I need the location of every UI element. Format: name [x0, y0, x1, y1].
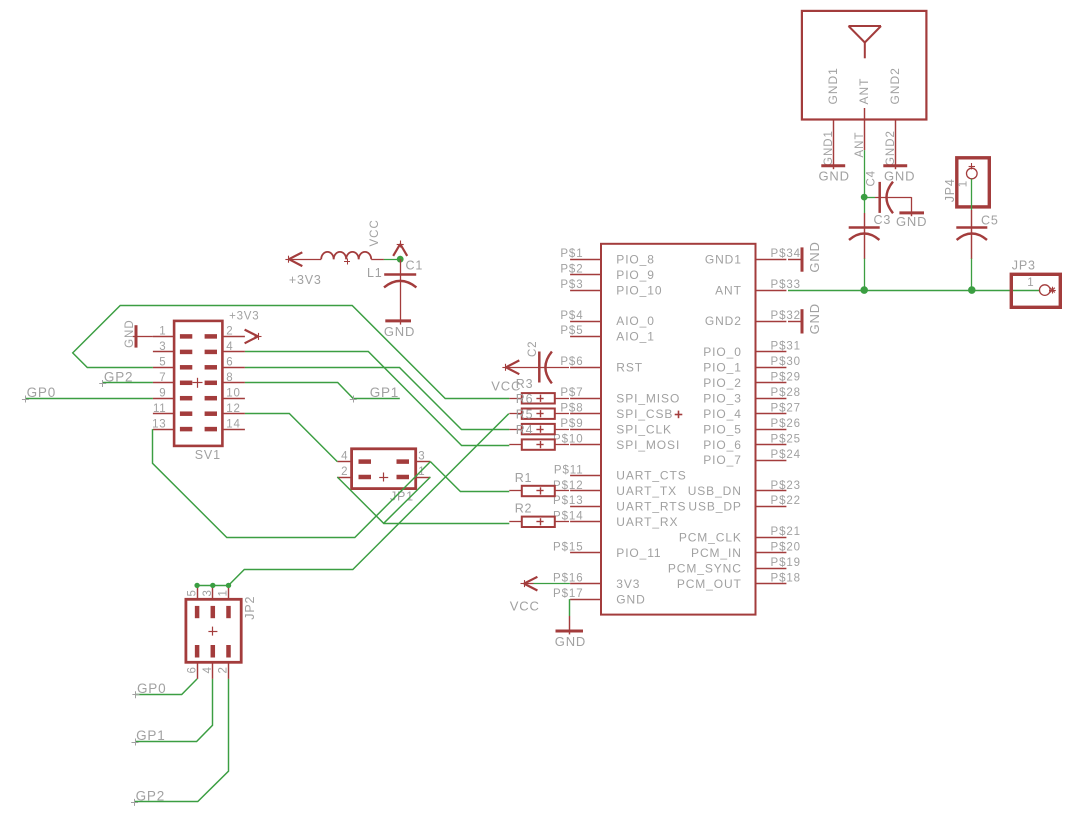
IC module box: [601, 244, 756, 615]
svg-text:7: 7: [159, 372, 166, 384]
wire SV1 pin8 GP1 stub: [245, 383, 400, 399]
svg-text:R4: R4: [516, 423, 534, 437]
connector JP3: [1011, 274, 1060, 307]
svg-text:JP3: JP3: [1012, 258, 1036, 272]
SV1 pin 11: [153, 403, 192, 415]
svg-text:VCC: VCC: [510, 598, 540, 613]
svg-text:RST: RST: [616, 361, 643, 375]
IC pin name PIO_6: [703, 438, 742, 452]
svg-text:+3V3: +3V3: [289, 273, 322, 287]
svg-text:GND: GND: [819, 169, 850, 184]
svg-text:GND2: GND2: [888, 67, 902, 104]
IC pin P$14: [553, 511, 601, 523]
svg-text:13: 13: [152, 418, 166, 430]
IC pin name SPI_CSB: [616, 407, 673, 421]
SV1 pin 10: [205, 387, 245, 399]
svg-text:GP0: GP0: [27, 385, 56, 400]
svg-text:10: 10: [226, 387, 240, 399]
svg-text:GND: GND: [807, 303, 822, 334]
wire SV1 pin7 GP2: [103, 382, 153, 384]
SV1 pin 8: [205, 372, 245, 384]
IC pin P$20: [756, 542, 801, 554]
svg-text:GND: GND: [896, 214, 927, 229]
svg-text:P$18: P$18: [771, 572, 801, 584]
IC pin name USB_DP: [688, 500, 741, 514]
svg-text:P$25: P$25: [771, 433, 801, 445]
wire JP1 pin1 to R2 corner (UART_RX): [384, 477, 431, 523]
antenna pin name ANT: [857, 78, 871, 105]
wire JP2 pin1 to R5 (SPI_CSB): [229, 414, 509, 586]
net label GND2: [885, 130, 897, 166]
IC pin name PIO_5: [703, 422, 742, 436]
net label ANT: [854, 132, 866, 158]
JP2 pin 2: [218, 645, 230, 679]
label JP1: [390, 489, 414, 503]
junction JP2 pin1: [226, 583, 231, 588]
svg-text:PCM_SYNC: PCM_SYNC: [668, 561, 742, 575]
svg-text:14: 14: [226, 418, 240, 430]
wire L1 to junction: [384, 259, 400, 261]
svg-text:UART_RX: UART_RX: [616, 515, 678, 529]
svg-text:PCM_IN: PCM_IN: [691, 546, 742, 560]
wire JP2 pin2 GP2: [135, 679, 229, 802]
svg-text:3: 3: [159, 341, 166, 353]
svg-text:PIO_9: PIO_9: [616, 268, 655, 282]
connector SV1: [174, 321, 222, 446]
connector JP1: [352, 449, 416, 489]
svg-text:PIO_5: PIO_5: [703, 422, 742, 436]
svg-text:GND1: GND1: [823, 130, 835, 166]
wire C5 to P$33 net: [971, 259, 973, 291]
supply VCC at C2: [491, 360, 521, 393]
svg-text:1: 1: [958, 180, 970, 187]
label JP2: [243, 596, 257, 620]
IC pin P$17: [553, 588, 601, 600]
junction JP2 pin3: [210, 583, 215, 588]
IC pin P$30: [756, 356, 801, 368]
svg-text:P$34: P$34: [771, 248, 801, 260]
svg-text:P$13: P$13: [553, 495, 583, 507]
wire JP2 top tie: [197, 585, 228, 587]
JP3 pin number 1: [1027, 277, 1034, 289]
svg-text:PIO_2: PIO_2: [703, 376, 742, 390]
SV1 pin 5: [153, 357, 192, 369]
wire SV1 pin13 to JP1 pin3: [153, 429, 431, 537]
IC pin P$29: [756, 372, 801, 384]
IC pin P$23: [756, 480, 801, 492]
IC pin name SPI_MISO: [616, 391, 680, 405]
svg-text:USB_DN: USB_DN: [688, 484, 742, 498]
svg-text:C2: C2: [527, 341, 539, 357]
SV1 pin 9: [153, 387, 192, 399]
IC pin P$22: [756, 495, 801, 507]
svg-text:P$6: P$6: [560, 356, 583, 368]
svg-text:JP4: JP4: [943, 178, 957, 202]
svg-text:VCC: VCC: [369, 219, 381, 246]
svg-text:R6: R6: [516, 392, 534, 406]
IC pin name AIO_0: [616, 314, 655, 328]
wire junction to C3: [864, 197, 866, 213]
svg-text:PIO_7: PIO_7: [703, 453, 742, 467]
svg-text:P$21: P$21: [771, 526, 801, 538]
svg-text:GND: GND: [555, 634, 586, 649]
svg-text:GP2: GP2: [136, 788, 165, 803]
IC pin P$2: [560, 263, 601, 275]
svg-text:P$11: P$11: [554, 464, 584, 476]
net label VCC at L1: [369, 219, 381, 246]
JP2 pin 4: [202, 645, 214, 679]
IC pin P$28: [756, 387, 801, 399]
net label GP0 at JP2: [132, 681, 166, 699]
antenna pin ANT: [864, 120, 866, 151]
junction ANT bus C5: [968, 286, 976, 294]
IC pin P$32: [756, 310, 801, 322]
wire P$17 down: [569, 599, 571, 631]
svg-text:GND: GND: [884, 169, 915, 184]
label JP3: [1012, 258, 1036, 272]
svg-text:P$17: P$17: [553, 588, 583, 600]
supply VCC at P$16: [510, 577, 540, 614]
net label GND1: [823, 130, 835, 166]
SV1 pin 6: [205, 357, 245, 369]
antenna pin GND1: [833, 120, 835, 166]
IC pin P$27: [756, 403, 801, 415]
svg-text:12: 12: [226, 403, 240, 415]
SV1 pin 2: [205, 326, 245, 338]
ground at P$34: [788, 241, 822, 272]
IC pin name UART_TX: [616, 484, 677, 498]
svg-text:9: 9: [159, 387, 166, 399]
junction VCC C1: [397, 256, 404, 263]
SV1 pin 12: [205, 403, 245, 415]
svg-text:AIO_0: AIO_0: [616, 314, 655, 328]
capacitor C4: [864, 170, 911, 213]
svg-text:P$28: P$28: [771, 387, 801, 399]
svg-text:5: 5: [186, 589, 198, 596]
svg-text:4: 4: [202, 666, 214, 673]
svg-text:PIO_10: PIO_10: [616, 283, 662, 297]
resistor at P$10: [509, 439, 569, 449]
antenna symbol: [849, 26, 882, 58]
svg-text:3: 3: [418, 450, 425, 462]
svg-text:PIO_6: PIO_6: [703, 438, 742, 452]
IC pin name GND1: [705, 252, 742, 266]
wire SV1 pin5 loop to R6 (SPI_MISO): [73, 306, 510, 399]
svg-text:P$31: P$31: [771, 341, 801, 353]
wire VCC to P$16: [525, 583, 570, 585]
IC pin name PIO_4: [703, 407, 742, 421]
wire JP1 pin3 to R1 (UART_TX): [430, 462, 509, 492]
IC pin name USB_DN: [688, 484, 742, 498]
svg-text:+3V3: +3V3: [229, 311, 259, 323]
connector JP4: [957, 158, 990, 207]
svg-text:P$23: P$23: [771, 480, 801, 492]
svg-text:P$27: P$27: [771, 403, 801, 415]
IC pin name PCM_SYNC: [668, 561, 742, 575]
svg-text:3: 3: [202, 589, 214, 596]
IC pin name UART_CTS: [616, 469, 686, 483]
JP2 pin 5: [186, 585, 198, 618]
IC pin P$13: [553, 495, 601, 507]
svg-text:SPI_CSB: SPI_CSB: [616, 407, 673, 421]
ground at SV1 pin1: [124, 319, 153, 348]
ground of C4: [896, 213, 927, 229]
net label GP1 at SV1: [350, 385, 399, 403]
svg-text:P$16: P$16: [553, 572, 583, 584]
svg-text:GND: GND: [384, 324, 415, 339]
SV1 pin 3: [153, 341, 192, 353]
IC pin name PCM_CLK: [679, 531, 742, 545]
IC pin name UART_RX: [616, 515, 678, 529]
IC pin P$15: [553, 542, 601, 554]
IC pin name PIO_9: [616, 268, 655, 282]
svg-text:2: 2: [341, 466, 348, 478]
junction at C4 tap: [861, 194, 868, 201]
resistor R5: [509, 407, 569, 421]
IC pin P$25: [756, 433, 801, 445]
svg-text:P$2: P$2: [560, 263, 583, 275]
IC pin P$21: [756, 526, 801, 538]
svg-text:P$7: P$7: [560, 387, 583, 399]
IC pin P$9: [560, 418, 601, 430]
IC pin name PIO_7: [703, 453, 742, 467]
svg-text:1: 1: [159, 326, 166, 338]
svg-text:PCM_OUT: PCM_OUT: [677, 577, 742, 591]
svg-text:SPI_MOSI: SPI_MOSI: [616, 438, 680, 452]
svg-text:PIO_3: PIO_3: [703, 391, 742, 405]
wire JP1 pin2 to R2: [337, 477, 509, 524]
IC pin P$4: [560, 310, 601, 322]
wire ANT antenna to junction: [864, 150, 866, 197]
IC pin name GND2: [705, 314, 742, 328]
svg-text:ANT: ANT: [857, 78, 871, 105]
svg-text:P$1: P$1: [560, 248, 583, 260]
IC pin P$33: [756, 279, 801, 291]
svg-text:P$8: P$8: [560, 403, 583, 415]
IC pin P$31: [756, 341, 801, 353]
JP1 pin 4: [337, 450, 371, 462]
svg-text:C5: C5: [981, 214, 999, 228]
svg-text:4: 4: [226, 341, 233, 353]
svg-text:GP1: GP1: [136, 728, 165, 743]
IC pin P$5: [560, 325, 601, 337]
svg-text:SPI_MISO: SPI_MISO: [616, 391, 680, 405]
IC pin name SPI_CLK: [616, 422, 672, 436]
svg-text:AIO_1: AIO_1: [616, 330, 655, 344]
resistor R1: [509, 471, 569, 496]
svg-text:GND2: GND2: [885, 130, 897, 166]
net label GP2 at JP2: [131, 788, 165, 806]
IC pin name ANT: [715, 283, 742, 297]
IC pin P$10: [553, 433, 601, 445]
svg-text:P$26: P$26: [771, 418, 801, 430]
svg-text:P$3: P$3: [560, 279, 583, 291]
wire JP2 pin4 GP1: [135, 679, 213, 742]
IC pin name PIO_2: [703, 376, 742, 390]
IC origin cross: [675, 411, 683, 419]
IC pin name UART_RTS: [616, 500, 686, 514]
JP4 pin number 1: [958, 180, 970, 187]
svg-text:P$20: P$20: [771, 542, 801, 554]
svg-text:2: 2: [226, 326, 233, 338]
svg-text:2: 2: [218, 666, 230, 673]
wire JP4 to C5: [971, 179, 973, 210]
antenna pin ANT stub inside: [864, 108, 866, 120]
supply +3V3 at L1: [285, 252, 321, 287]
antenna pin name GND1: [826, 67, 840, 104]
svg-text:UART_TX: UART_TX: [616, 484, 677, 498]
svg-text:P$9: P$9: [560, 418, 583, 430]
svg-text:C1: C1: [406, 259, 424, 273]
resistor R6: [509, 392, 569, 406]
svg-text:ANT: ANT: [715, 283, 742, 297]
svg-text:P$19: P$19: [771, 557, 801, 569]
label JP4: [943, 178, 957, 202]
ground at P$32: [788, 303, 822, 334]
svg-text:GND2: GND2: [705, 314, 742, 328]
ground at P$17: [555, 631, 586, 649]
svg-text:GND: GND: [807, 241, 822, 272]
IC pin name PCM_IN: [691, 546, 742, 560]
svg-text:R5: R5: [516, 407, 534, 421]
IC pin name RST: [616, 361, 643, 375]
JP1 pin 1: [397, 466, 431, 478]
label R3: [516, 377, 534, 391]
svg-text:6: 6: [226, 357, 233, 369]
wire SV1 pin4 to resistor at P$10 (SPI_MOSI): [245, 352, 509, 446]
JP1 pin 2: [337, 466, 371, 478]
SV1 pin 13: [152, 418, 192, 430]
svg-text:UART_RTS: UART_RTS: [616, 500, 686, 514]
svg-text:L1: L1: [367, 266, 383, 280]
svg-text:PIO_1: PIO_1: [703, 361, 742, 375]
IC pin P$19: [756, 557, 801, 569]
IC pin P$18: [756, 572, 801, 584]
svg-text:P$10: P$10: [553, 433, 583, 445]
connector JP2: [186, 599, 241, 662]
junction ANT bus C3: [860, 286, 868, 294]
IC pin P$24: [756, 449, 801, 461]
IC pin name PIO_1: [703, 361, 742, 375]
IC pin P$11: [554, 464, 601, 476]
IC pin name 3V3: [616, 577, 640, 591]
SV1 pin 7: [153, 372, 192, 384]
junction JP2 pin5: [194, 583, 199, 588]
wire SV1 pin12 to JP1 pin4: [245, 414, 337, 462]
JP2 pin 3: [202, 585, 214, 618]
IC pin P$3: [560, 279, 601, 291]
wire SV1 pin9 GP0: [25, 398, 152, 400]
svg-text:1: 1: [218, 589, 230, 596]
svg-text:P$22: P$22: [771, 495, 801, 507]
svg-text:GND: GND: [616, 592, 645, 606]
IC pin P$7: [560, 387, 601, 399]
antenna module box: [802, 11, 927, 120]
svg-text:3V3: 3V3: [616, 577, 640, 591]
antenna pin name GND2: [888, 67, 902, 104]
svg-text:SPI_CLK: SPI_CLK: [616, 422, 672, 436]
svg-text:PIO_4: PIO_4: [703, 407, 742, 421]
svg-text:PIO_8: PIO_8: [616, 252, 655, 266]
resistor R4: [509, 423, 569, 437]
IC pin P$12: [553, 480, 601, 492]
supply VCC at C1: [393, 241, 407, 260]
wire C3 to P$33 net: [864, 259, 866, 291]
IC pin name GND: [616, 592, 645, 606]
svg-text:P$33: P$33: [771, 279, 801, 291]
resistor R2: [509, 502, 569, 527]
IC pin P$34: [756, 248, 801, 260]
IC pin name PIO_8: [616, 252, 655, 266]
IC pin name PIO_10: [616, 283, 662, 297]
net label GP0 at SV1: [22, 385, 56, 403]
net label GP2 at SV1: [99, 370, 133, 388]
svg-text:11: 11: [153, 403, 167, 415]
IC pin name AIO_1: [616, 330, 655, 344]
IC pin name PIO_3: [703, 391, 742, 405]
svg-text:GND1: GND1: [826, 67, 840, 104]
capacitor C2: [507, 341, 570, 384]
ground at C1: [384, 321, 415, 339]
svg-text:PIO_11: PIO_11: [616, 546, 661, 560]
svg-text:USB_DP: USB_DP: [688, 500, 741, 514]
SV1 pin 4: [205, 341, 245, 353]
JP1 pin 3: [397, 450, 431, 462]
wire P$33 to JP3: [788, 290, 1040, 292]
svg-text:GP1: GP1: [370, 385, 399, 400]
IC pin name PIO_0: [703, 345, 742, 359]
svg-text:4: 4: [341, 450, 348, 462]
svg-text:GND: GND: [124, 319, 136, 348]
wire SV1 pin6 to R4 (SPI_CLK): [245, 368, 509, 430]
IC pin P$16: [553, 572, 601, 584]
label SV1: [195, 448, 221, 462]
ground under GND2: [883, 166, 915, 184]
svg-text:P$15: P$15: [553, 542, 583, 554]
svg-text:R1: R1: [515, 471, 533, 485]
JP2 pin 6: [186, 645, 198, 679]
svg-text:PCM_CLK: PCM_CLK: [679, 531, 742, 545]
wire JP2 pin6 GP0: [136, 679, 197, 695]
JP2 pin 1: [218, 585, 230, 618]
svg-text:P$24: P$24: [771, 449, 801, 461]
IC pin name PIO_11: [616, 546, 661, 560]
svg-text:GP2: GP2: [104, 370, 133, 385]
svg-text:8: 8: [226, 372, 233, 384]
svg-text:P$29: P$29: [771, 372, 801, 384]
antenna pin GND2: [895, 120, 897, 166]
svg-text:R3: R3: [516, 377, 534, 391]
net label GP1 at JP2: [132, 728, 166, 746]
capacitor C3: [849, 213, 891, 259]
svg-text:R2: R2: [515, 502, 533, 516]
IC pin name PCM_OUT: [677, 577, 742, 591]
svg-text:C3: C3: [874, 213, 892, 227]
svg-text:P$4: P$4: [560, 310, 583, 322]
supply +3V3 at SV1 pin2: [229, 311, 261, 344]
svg-text:1: 1: [1027, 277, 1034, 289]
ground under GND1: [819, 166, 850, 184]
svg-text:P$32: P$32: [771, 310, 801, 322]
svg-text:GND1: GND1: [705, 252, 742, 266]
svg-text:P$5: P$5: [560, 325, 583, 337]
svg-text:PIO_0: PIO_0: [703, 345, 742, 359]
svg-text:GP0: GP0: [137, 681, 166, 696]
capacitor C5: [956, 210, 998, 259]
IC pin P$1: [560, 248, 601, 260]
svg-text:C4: C4: [865, 170, 877, 186]
inductor L1: [290, 252, 384, 280]
